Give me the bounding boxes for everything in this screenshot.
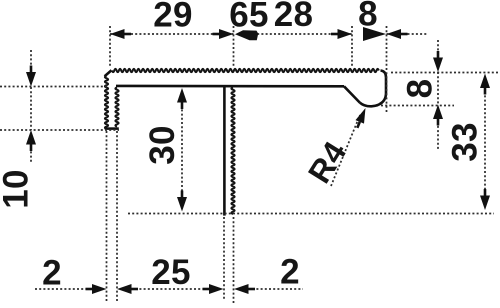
arrow 28 right bbox=[338, 29, 353, 39]
svg-text:28: 28 bbox=[274, 0, 314, 34]
R4 leader arrowhead bbox=[356, 108, 366, 124]
profile left wall outer face bbox=[105, 76, 108, 129]
top dimension line 29 bbox=[110, 33, 234, 35]
arrow 2-right outside (left at x234) bbox=[234, 284, 249, 294]
arrow 25 right bbox=[209, 284, 224, 294]
arrow 33 bottom bbox=[480, 196, 490, 211]
svg-text:2: 2 bbox=[42, 254, 62, 293]
arrow 8 outer (pointing left at x386.5) bbox=[387, 29, 402, 39]
left dim 10: extension line y130 bbox=[0, 129, 119, 131]
arrow 29 right bbox=[219, 29, 234, 39]
arrow 8 inner (pointing right at x386) bbox=[363, 27, 386, 41]
arrow 30 top bbox=[177, 88, 187, 103]
svg-text:25: 25 bbox=[151, 253, 191, 292]
arrows 6,5 bowtie bbox=[235, 30, 258, 40]
bottom extension lines below left wall bbox=[106, 131, 108, 301]
arrow 10 top (down at y86.5) bbox=[26, 72, 36, 87]
bottom dimension line right tail bbox=[248, 288, 303, 290]
top dimension line 28 tail bbox=[253, 33, 352, 35]
profile flange underside diagonal to tab bbox=[344, 86, 360, 102]
arrow 25 left bbox=[117, 284, 132, 294]
bottom dimension line 25 bbox=[131, 288, 209, 290]
arrow 2-left outside (right at x106.5) bbox=[92, 284, 107, 294]
profile left wall inner face bbox=[115, 88, 118, 127]
top dimension line 8 tail bbox=[387, 33, 428, 35]
profile left wall bottom cap bbox=[105, 127, 119, 130]
left dim 10: extension line y86.5 bbox=[0, 86, 108, 88]
dim 30: dimension line bbox=[181, 101, 183, 198]
arrow 33 top bbox=[480, 74, 490, 89]
extension line y105.5 right bbox=[381, 105, 454, 107]
profile top-left chamfer bbox=[105, 70, 112, 76]
arrow right-8 top (down at y72) bbox=[433, 58, 443, 73]
extension line x386.5 (right of 8, tab right) bbox=[386, 26, 388, 113]
extension line x233.5 (29 / 6,5) bbox=[233, 26, 235, 67]
arrow right-8 bottom (up at y104.5) bbox=[433, 105, 443, 120]
svg-text:8: 8 bbox=[401, 79, 440, 99]
extension line y213.5 (bottom of 30/33) bbox=[128, 213, 494, 215]
svg-text:29: 29 bbox=[153, 0, 193, 35]
svg-text:10: 10 bbox=[0, 169, 36, 209]
svg-text:33: 33 bbox=[446, 122, 485, 162]
svg-text:8: 8 bbox=[358, 0, 378, 34]
profile top edge (wavy outline) bbox=[112, 69, 379, 72]
extension line x110 (top of 29) bbox=[109, 26, 111, 66]
left dim 10: dimension line tails bbox=[30, 50, 32, 73]
arrow 29 left bbox=[110, 29, 125, 39]
right dim 8: dimension line tails bbox=[437, 40, 439, 59]
profile rib right face (wavy) bbox=[231, 88, 234, 215]
R4 leader line bbox=[331, 115, 360, 186]
arrow 30 bottom bbox=[177, 197, 187, 212]
extension line y72.5 right bbox=[391, 72, 499, 74]
bottom dimension line left tail bbox=[35, 288, 93, 290]
profile rib left face bbox=[223, 86, 226, 215]
svg-text:65: 65 bbox=[229, 0, 269, 35]
profile tab right side and R4 nose bbox=[360, 71, 386, 107]
arrow 10 bottom (up at y130) bbox=[26, 130, 36, 145]
svg-text:30: 30 bbox=[143, 125, 182, 165]
dim 33: dimension line bbox=[484, 87, 486, 196]
profile flange inner face line bbox=[116, 85, 344, 88]
extension line x352 (28 / 8, tab left) bbox=[351, 26, 353, 66]
svg-text:2: 2 bbox=[280, 253, 300, 292]
bottom extension lines below rib bbox=[223, 217, 225, 299]
